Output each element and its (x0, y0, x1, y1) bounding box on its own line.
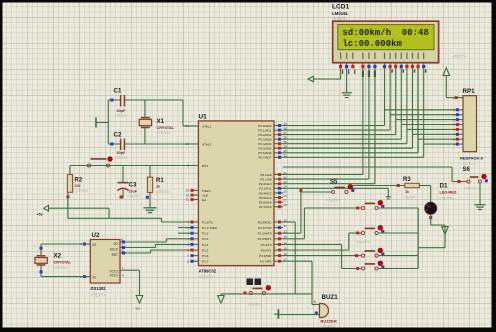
svg-text:P2.3/A11: P2.3/A11 (259, 187, 272, 191)
wire P3.7 to buzzer (283, 261, 320, 304)
wire P3.4 to button5 (283, 244, 361, 268)
svg-text:P0.2/AD2: P0.2/AD2 (258, 133, 272, 137)
wire U2 SCLK to P1.4 (126, 244, 191, 247)
ground arrow below D1 (442, 227, 449, 235)
svg-text:BUZ1: BUZ1 (322, 294, 339, 301)
power arrow +5v (37, 205, 49, 216)
LCD pin name labels RS RW E (362, 71, 376, 78)
ground under S6 (475, 205, 486, 210)
svg-text:<TEXT>: <TEXT> (75, 189, 90, 193)
wire U2 VCC2 to power arrow (126, 270, 140, 295)
svg-text:30pF: 30pF (117, 109, 127, 113)
capacitor C2 (114, 132, 129, 161)
node C1 left (blue) (110, 99, 113, 102)
svg-text:11: 11 (284, 224, 287, 228)
node buzzer pin (blue) (315, 312, 318, 315)
MCU U1 left pins XTAL1 XTAL2 RST PSEN ALE EA P1.0-P1.7 (186, 124, 217, 263)
svg-text:31: 31 (186, 198, 190, 202)
svg-text:RP1: RP1 (463, 88, 476, 95)
svg-text:<TEXT>: <TEXT> (91, 292, 107, 297)
svg-text:P0.4/AD4: P0.4/AD4 (258, 142, 272, 146)
svg-text:P2.0/A8: P2.0/A8 (260, 173, 271, 177)
wire P3.3 to button2 (283, 208, 361, 239)
wire VSS to ground arrow (314, 68, 341, 79)
wire crystal X1 bottom (144, 128, 146, 145)
svg-text:P0.3/AD3: P0.3/AD3 (258, 138, 272, 142)
wire S6 right to ground (479, 183, 481, 204)
U2 VCC pins (120, 266, 126, 278)
node button2 left (red) (356, 207, 359, 210)
wire XTAL2 net (C2 row) (108, 143, 190, 145)
svg-text:30pF: 30pF (117, 151, 127, 155)
svg-text:<TEXT>: <TEXT> (403, 195, 418, 199)
svg-text:R1: R1 (156, 178, 164, 184)
svg-text:<TEXT>: <TEXT> (156, 190, 171, 194)
svg-text:P1.6: P1.6 (202, 254, 209, 258)
svg-text:sd:00km/h 00:48: sd:00km/h 00:48 (343, 28, 429, 38)
svg-text:30: 30 (186, 193, 190, 197)
wire S6 net from MCU (283, 167, 467, 182)
node C3 bottom (red) (120, 196, 123, 199)
wire bottom row net (221, 293, 312, 295)
svg-text:X1: X1 (157, 118, 165, 125)
svg-text:<TEXT>: <TEXT> (127, 195, 142, 199)
supply bar left of buzzer (274, 309, 278, 318)
wire crystal X1 top (144, 100, 146, 118)
svg-text:P3.6/WR: P3.6/WR (259, 254, 272, 258)
wire C3 top (122, 166, 124, 183)
wire P3.2 to S5 (283, 192, 331, 233)
wire RST net (70, 165, 191, 167)
svg-text:AT89C52: AT89C52 (199, 268, 217, 273)
svg-text:LCD1: LCD1 (332, 4, 350, 11)
MCU U1 right pins P0.0-P0.7 P2.0-P2.7 P3.0-P3.7 (258, 122, 288, 264)
svg-text:P2.1/A9: P2.1/A9 (260, 178, 271, 182)
button key2 (361, 201, 384, 210)
node button3 left (red) (356, 232, 359, 235)
svg-text:lc:00.000km: lc:00.000km (343, 39, 402, 49)
svg-text:P0.1/AD1: P0.1/AD1 (258, 129, 272, 133)
svg-text:27: 27 (284, 199, 288, 203)
svg-text:P2.7/A15: P2.7/A15 (259, 205, 272, 209)
svg-text:S6: S6 (463, 167, 471, 173)
svg-text:X2: X2 (54, 252, 62, 259)
wire R3 to D1 (419, 186, 430, 203)
LCD pins VSS VDD VEE RS RW E D0-D7 (339, 53, 425, 69)
wire LCD D0-D7 verticals (385, 68, 424, 157)
wire P3.6 to button4 (283, 255, 361, 257)
node confirm left (red) (243, 292, 246, 295)
node R3 left (red) (397, 184, 400, 187)
wire D1 to ground arrow (431, 214, 445, 247)
svg-text:CRYSTAL: CRYSTAL (157, 126, 175, 130)
wire C3 bottom (122, 190, 124, 199)
svg-text:X2: X2 (92, 243, 96, 247)
RP1 pins 1-9 (453, 96, 463, 147)
svg-text:VCC1: VCC1 (109, 274, 118, 278)
wire RP1 pin horizontals (385, 110, 457, 144)
svg-text:<TEXT>: <TEXT> (199, 275, 215, 280)
resistor R2 (67, 166, 89, 194)
svg-text:<TEXT>: <TEXT> (356, 241, 371, 245)
svg-text:P3.2/INT0: P3.2/INT0 (258, 232, 272, 236)
svg-text:P3.4/T0: P3.4/T0 (261, 243, 272, 247)
resistor R1 (147, 166, 171, 194)
wire R2 bottom to +5v rail (67, 192, 69, 218)
svg-text:PSEN: PSEN (202, 189, 210, 193)
wire +5v arrow rail (49, 208, 110, 218)
ground under R1 (144, 208, 157, 213)
svg-text:P1.7: P1.7 (202, 260, 209, 264)
svg-text:B: B (314, 300, 316, 304)
wire P2.0 to LCD RS (283, 68, 363, 174)
resistor R3 (398, 177, 419, 199)
svg-text:<TEXT>: <TEXT> (54, 266, 69, 270)
svg-text:P3.7/RD: P3.7/RD (260, 260, 272, 264)
svg-text:P0.7/AD7: P0.7/AD7 (258, 156, 272, 160)
svg-text:<TEXT>: <TEXT> (464, 187, 479, 191)
svg-text:CRYSTAL: CRYSTAL (54, 260, 72, 264)
svg-text:29: 29 (186, 189, 190, 193)
wire P2.2 to LCD E (283, 68, 375, 184)
svg-text:P0.6/AD6: P0.6/AD6 (258, 151, 272, 155)
power arrow below U2 (136, 296, 143, 311)
svg-text:C3: C3 (129, 181, 137, 188)
svg-text:P2.6/A14: P2.6/A14 (259, 201, 272, 205)
svg-text:R2: R2 (75, 177, 83, 183)
resistor pack RP1 RESPACK-8 (460, 88, 484, 166)
svg-text:P3.0/RXD: P3.0/RXD (258, 220, 273, 224)
node X2 top (blue) (40, 247, 43, 250)
button key5 (361, 261, 384, 270)
wire VDD to ground (346, 68, 348, 92)
wire S5 to R3 (353, 185, 398, 187)
svg-text:P1.1/T2EX: P1.1/T2EX (202, 226, 217, 230)
wire XTAL1 net (C1 row) (108, 100, 190, 126)
IC U2 DS1302 body (90, 232, 120, 297)
LED D1 LED-RED (425, 182, 457, 214)
node S6 left (red) (458, 180, 461, 183)
capacitor C3 (118, 181, 142, 198)
svg-text:P2.2/A10: P2.2/A10 (259, 182, 272, 186)
node X2 bottom (blue) (40, 270, 43, 273)
svg-text:1k: 1k (156, 185, 160, 189)
svg-text:P1.0/T2: P1.0/T2 (202, 220, 213, 224)
svg-text:C2: C2 (114, 132, 122, 139)
svg-text:P3.5/T1: P3.5/T1 (261, 248, 272, 252)
capacitor C1 (114, 88, 129, 118)
svg-text:S5: S5 (330, 179, 338, 185)
node C2 left (blue) (110, 143, 113, 146)
svg-text:DS1302: DS1302 (91, 286, 107, 291)
svg-text:<TEXT>: <TEXT> (157, 131, 172, 135)
svg-text:U1: U1 (199, 114, 208, 121)
button confirm (label blocks) (247, 279, 271, 307)
svg-text:LED-RED: LED-RED (440, 190, 457, 194)
svg-text:P3.1/TXD: P3.1/TXD (258, 226, 272, 230)
svg-text:26: 26 (284, 194, 288, 198)
svg-text:BUZZER: BUZZER (321, 319, 337, 324)
svg-text:RST: RST (202, 164, 208, 168)
wire RP1 pin1 to VCC arrow (446, 76, 456, 98)
svg-text:<TEXT>: <TEXT> (321, 325, 336, 329)
wire U2 IO to P1.3 (126, 239, 191, 242)
svg-text:R3: R3 (403, 177, 411, 183)
svg-text:28: 28 (284, 203, 288, 207)
LCD display U=LCD1 LM016L (333, 21, 439, 63)
node S5 corner (red) (299, 189, 302, 192)
wire +5v lower rail to P1.0 (68, 218, 191, 222)
U2 right pins IO SCLK RST (120, 238, 126, 255)
svg-text:P2.4/A12: P2.4/A12 (259, 191, 272, 195)
svg-text:<TEXT>: <TEXT> (452, 55, 467, 59)
op-amp-style body of MCU U1 AT89C52 (198, 121, 274, 266)
ground arrow (left) for VSS (308, 76, 314, 82)
node D1 bottom (red) (429, 216, 432, 219)
label AT89C52 (199, 268, 217, 279)
svg-text:RST: RST (112, 253, 118, 257)
crystal X2 (35, 252, 72, 269)
svg-text:ALE: ALE (202, 194, 208, 198)
wire P0 bus horizontals (283, 126, 424, 158)
svg-text:P1.4: P1.4 (202, 243, 209, 247)
svg-text:P1.2: P1.2 (202, 232, 209, 236)
svg-text:U2: U2 (92, 232, 100, 239)
button S5 (326, 179, 354, 202)
node button4 left (red) (355, 254, 358, 257)
node R1 bottom (blue) (146, 196, 149, 199)
svg-text:XTAL1: XTAL1 (202, 124, 212, 128)
buzzer BUZ1 (314, 294, 338, 329)
svg-text:vcc: vcc (136, 307, 141, 311)
svg-text:P1.3: P1.3 (202, 237, 209, 241)
svg-text:P2.5/A13: P2.5/A13 (259, 196, 272, 200)
svg-text:10uF: 10uF (129, 189, 138, 193)
crystal X1 (139, 118, 174, 135)
push button (reset) (87, 157, 112, 167)
button key3 (356, 226, 384, 245)
LCD pin number marks (342, 70, 427, 75)
node button5 left (red) (356, 267, 359, 270)
wire C1-C2 left vertical (107, 100, 109, 144)
svg-text:200: 200 (75, 184, 81, 188)
node R2 bottom (red) (66, 195, 69, 198)
svg-text:C1: C1 (114, 88, 122, 95)
svg-text:<TEXT>: <TEXT> (460, 161, 476, 166)
LCD LCD1 labels (332, 4, 350, 22)
ground under LCD VDD (342, 93, 353, 98)
power arrow below confirm button (218, 294, 225, 303)
svg-text:+5v: +5v (37, 213, 43, 217)
wire R1 to ground (149, 193, 151, 208)
wire buzzer to supply bar (278, 314, 319, 316)
svg-text:RESPACK-8: RESPACK-8 (460, 155, 484, 160)
button S6 (463, 167, 488, 191)
svg-text:XTAL2: XTAL2 (202, 142, 212, 146)
wire P2.1 to LCD RW (283, 68, 369, 179)
svg-text:X1: X1 (92, 276, 96, 280)
wire P3.0 down (283, 222, 295, 294)
button key4 (361, 248, 384, 257)
wire stub P1.2 (178, 232, 191, 234)
svg-text:P0.5/AD5: P0.5/AD5 (258, 147, 272, 151)
svg-text:LM016L: LM016L (332, 11, 349, 16)
wire U2.X2 to crystal X2 top (41, 244, 85, 256)
wire P2.3 stub with terminal (283, 188, 391, 199)
svg-text:P1.5: P1.5 (202, 248, 209, 252)
svg-text:P0.0/AD0: P0.0/AD0 (258, 124, 272, 128)
power arrow VCC (up) top right (443, 55, 467, 76)
svg-text:<TEXT>: <TEXT> (326, 199, 341, 203)
wire stub P1.1 (178, 227, 191, 229)
label U1 (199, 114, 208, 121)
svg-text:SCLK: SCLK (110, 248, 119, 252)
svg-text:25: 25 (284, 189, 288, 193)
U2 left pins (80, 242, 90, 279)
wire P3.5 to button3 (283, 233, 361, 250)
svg-text:P3.3/INT1: P3.3/INT1 (258, 237, 272, 241)
U2 pin labels (92, 242, 119, 279)
ground tap left of C1/C2 (96, 118, 108, 128)
svg-text:<TEXT>: <TEXT> (248, 302, 263, 306)
wire buttons common to ground (378, 208, 445, 269)
svg-text:<TEXT>: <TEXT> (114, 114, 129, 118)
svg-text:<TEXT>: <TEXT> (114, 156, 129, 160)
svg-text:D1: D1 (440, 182, 448, 189)
svg-text:1k: 1k (405, 190, 409, 194)
wire U2 RST to P1.5 (126, 250, 191, 253)
wire crystal X2 bottom to U2.X1 (41, 265, 85, 277)
svg-text:<TEXT>: <TEXT> (440, 197, 455, 201)
svg-text:I/O: I/O (114, 242, 119, 246)
